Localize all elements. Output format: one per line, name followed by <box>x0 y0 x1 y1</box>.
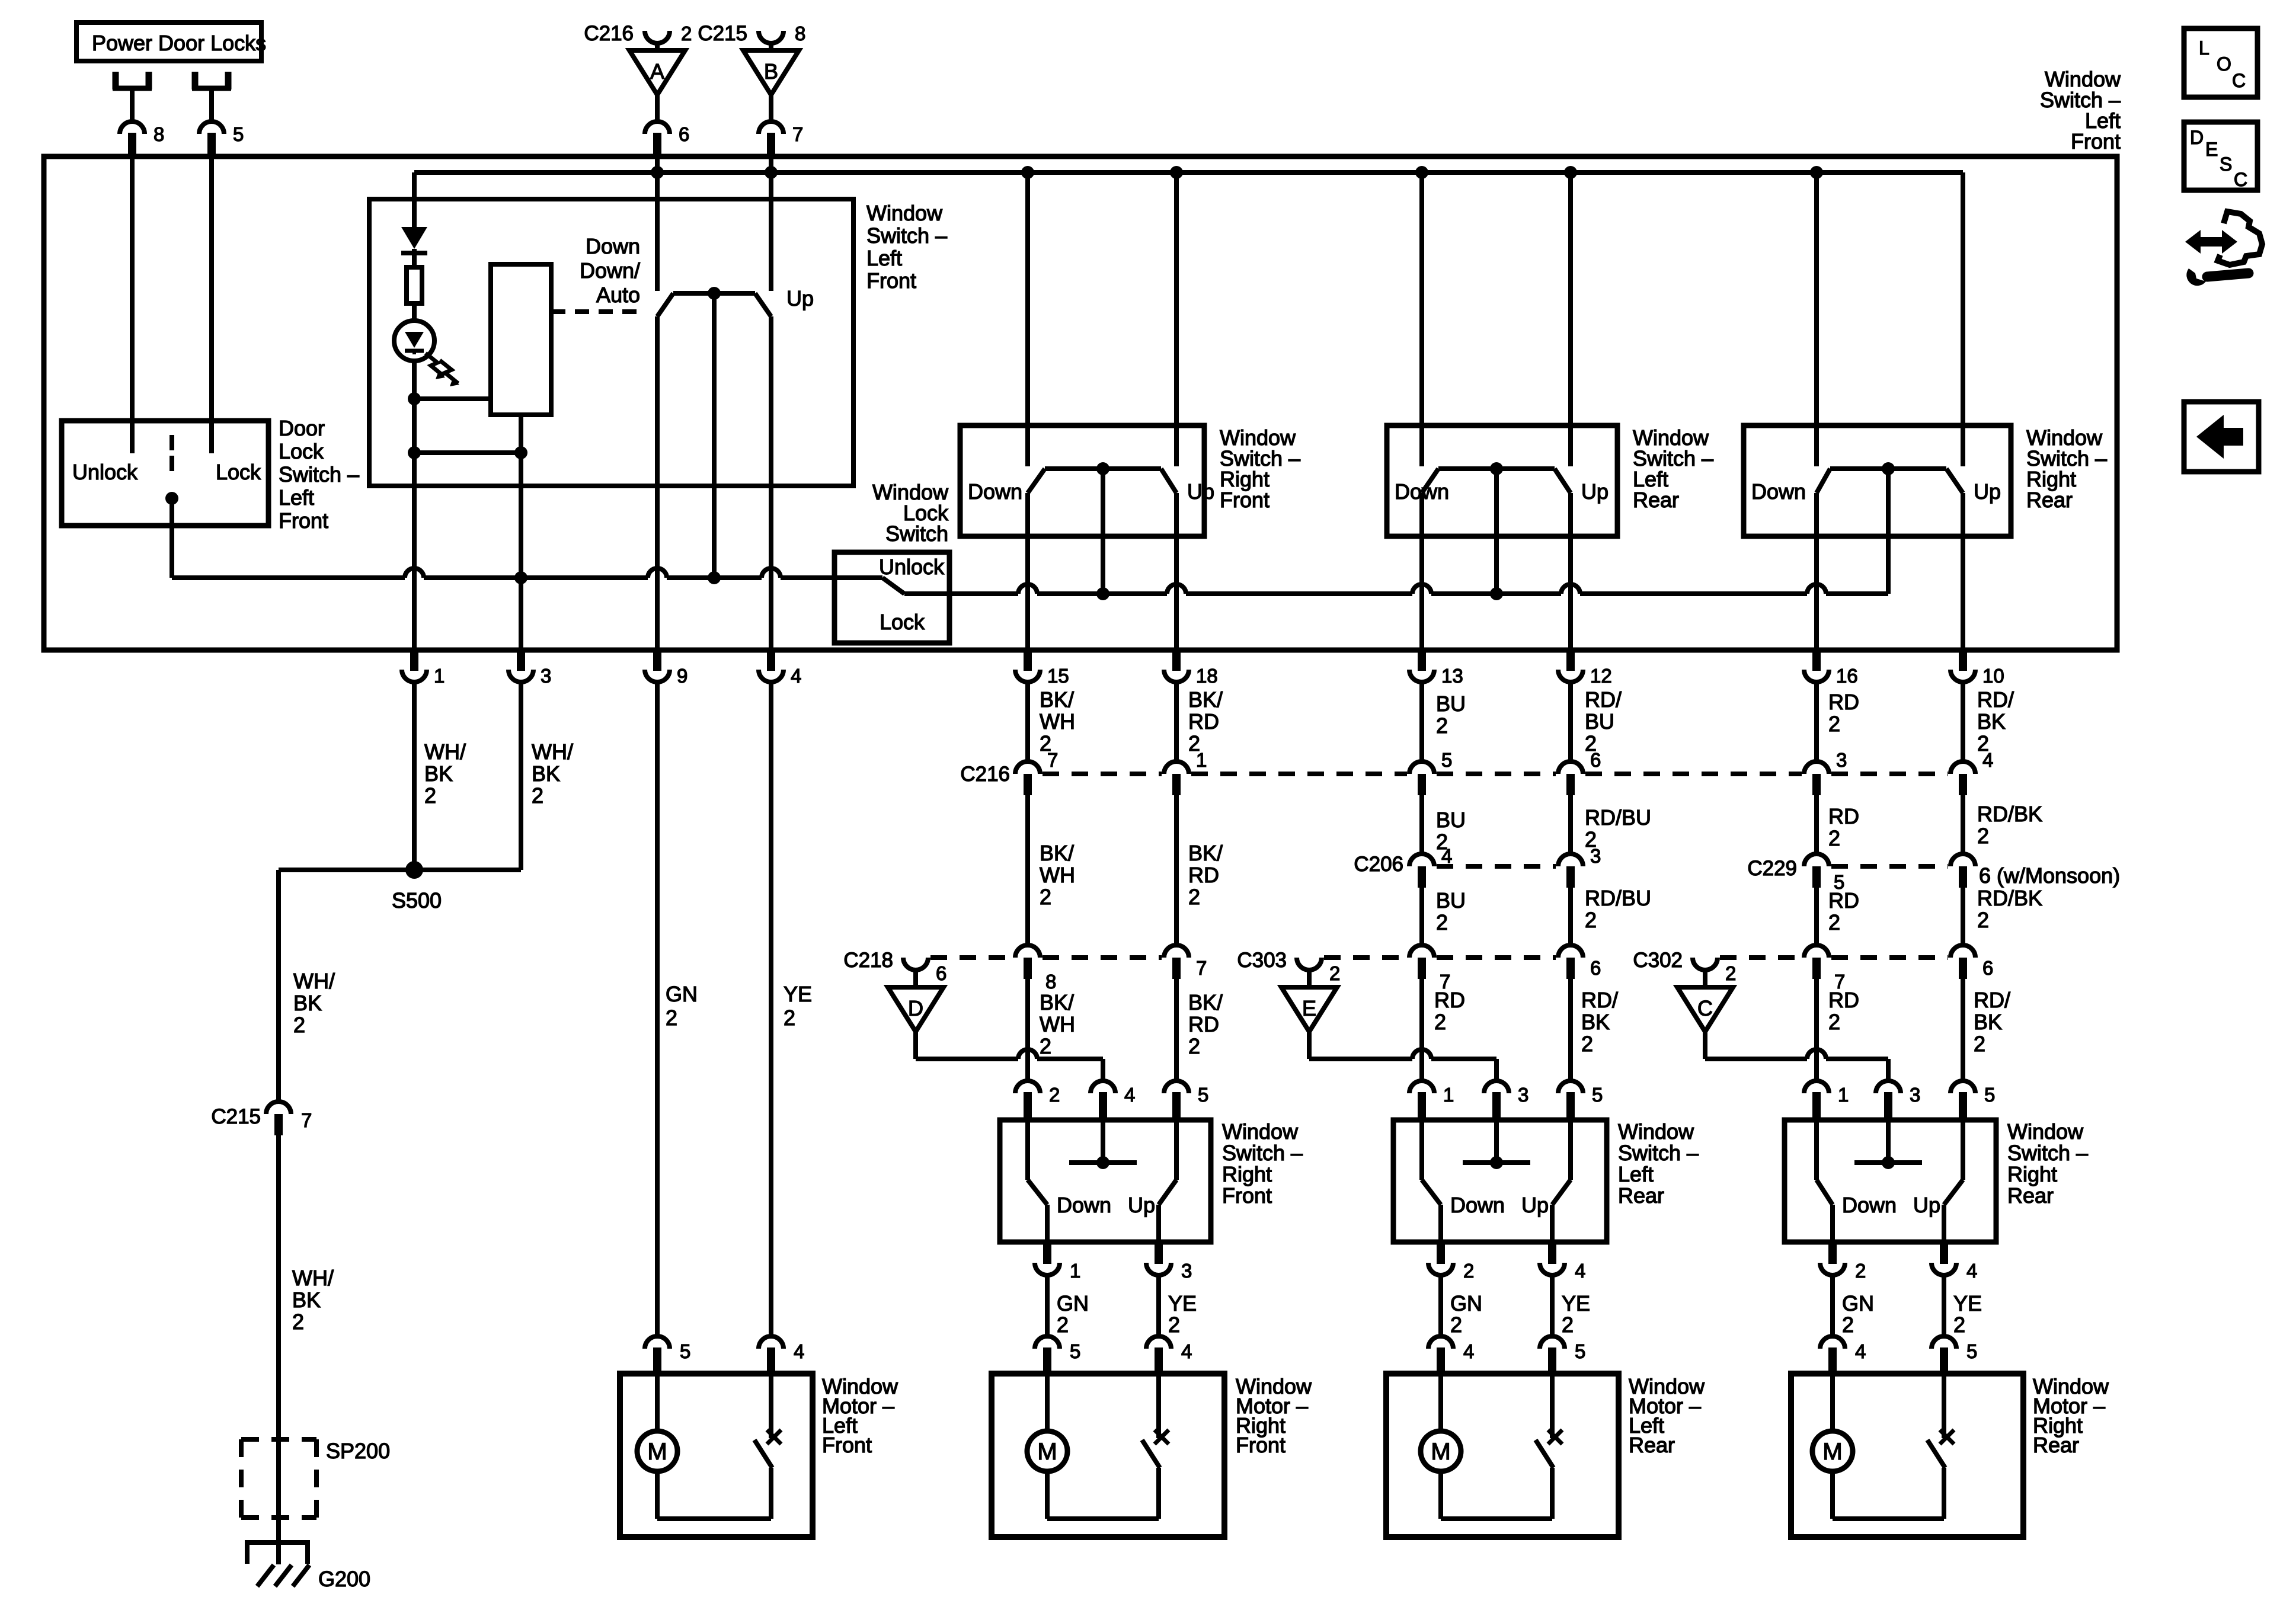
svg-text:2: 2 <box>1842 1313 1854 1337</box>
svg-text:2: 2 <box>1168 1313 1180 1337</box>
svg-text:Left: Left <box>279 485 314 510</box>
svg-text:2: 2 <box>1828 910 1840 934</box>
svg-text:2: 2 <box>1725 962 1736 984</box>
svg-text:WH: WH <box>1040 1012 1075 1036</box>
svg-text:C229: C229 <box>1747 857 1797 880</box>
svg-text:WH/: WH/ <box>293 969 335 993</box>
svg-text:RD/BU: RD/BU <box>1585 886 1651 910</box>
svg-text:WH: WH <box>1040 709 1075 734</box>
svg-text:YE: YE <box>1168 1291 1197 1315</box>
svg-text:4: 4 <box>1124 1084 1135 1106</box>
svg-text:BK: BK <box>532 761 560 786</box>
svg-text:4: 4 <box>1181 1340 1192 1362</box>
svg-text:C215: C215 <box>698 22 747 45</box>
svg-text:1: 1 <box>434 665 445 687</box>
svg-text:BK: BK <box>1974 1010 2002 1034</box>
svg-text:BK: BK <box>1977 709 2006 734</box>
svg-text:C215: C215 <box>211 1105 261 1128</box>
svg-text:6: 6 <box>679 123 689 145</box>
svg-text:Up: Up <box>1521 1193 1549 1217</box>
svg-text:C302: C302 <box>1633 949 1683 972</box>
svg-text:RD/: RD/ <box>1974 988 2010 1012</box>
svg-text:M: M <box>1822 1439 1842 1465</box>
svg-text:Up: Up <box>786 286 814 311</box>
svg-text:Switch –: Switch – <box>1222 1141 1303 1165</box>
svg-text:18: 18 <box>1196 665 1218 687</box>
svg-text:Rear: Rear <box>1629 1433 1675 1457</box>
svg-text:RD/BU: RD/BU <box>1585 805 1651 830</box>
svg-text:M: M <box>1431 1439 1450 1465</box>
svg-text:C218: C218 <box>843 949 893 972</box>
svg-text:YE: YE <box>1562 1291 1590 1315</box>
svg-text:Rear: Rear <box>1633 488 1679 512</box>
svg-text:M: M <box>1037 1439 1057 1465</box>
svg-text:7: 7 <box>301 1109 312 1131</box>
svg-text:Window: Window <box>1618 1119 1694 1144</box>
svg-text:Switch: Switch <box>885 521 948 546</box>
svg-text:2: 2 <box>1436 910 1448 934</box>
svg-text:2: 2 <box>1049 1084 1060 1106</box>
svg-text:Left: Left <box>1618 1162 1654 1186</box>
svg-text:BK/: BK/ <box>1188 841 1223 865</box>
svg-text:2: 2 <box>666 1006 677 1030</box>
svg-text:13: 13 <box>1441 665 1463 687</box>
svg-text:L: L <box>2199 37 2209 59</box>
svg-text:RD: RD <box>1188 709 1219 734</box>
svg-text:S500: S500 <box>392 888 442 913</box>
svg-text:2: 2 <box>1977 824 1989 848</box>
svg-text:GN: GN <box>1057 1291 1089 1315</box>
svg-text:5: 5 <box>1592 1084 1603 1106</box>
svg-text:5: 5 <box>1441 749 1452 771</box>
svg-text:8: 8 <box>154 123 164 145</box>
svg-text:RD/BK: RD/BK <box>1977 802 2042 826</box>
svg-text:BK/: BK/ <box>1188 990 1223 1014</box>
svg-text:Right: Right <box>1222 1162 1272 1186</box>
svg-text:6: 6 <box>936 962 946 984</box>
svg-text:RD: RD <box>1828 690 1859 714</box>
svg-text:6 (w/Monsoon): 6 (w/Monsoon) <box>1979 863 2120 888</box>
svg-text:Window: Window <box>2007 1119 2084 1144</box>
svg-text:4: 4 <box>1855 1340 1866 1362</box>
svg-text:2: 2 <box>1953 1313 1965 1337</box>
svg-text:4: 4 <box>791 665 801 687</box>
svg-text:Front: Front <box>1220 488 1269 512</box>
svg-text:2: 2 <box>1040 1034 1051 1058</box>
svg-text:5: 5 <box>680 1340 690 1362</box>
svg-text:2: 2 <box>1436 713 1448 738</box>
svg-text:6: 6 <box>1590 749 1601 771</box>
svg-text:BU: BU <box>1585 709 1614 734</box>
svg-text:E: E <box>2205 139 2218 160</box>
svg-text:Up: Up <box>1187 479 1214 504</box>
svg-text:C: C <box>1697 996 1713 1020</box>
svg-text:3: 3 <box>541 665 551 687</box>
svg-text:2: 2 <box>1855 1260 1866 1282</box>
svg-text:RD: RD <box>1828 888 1859 913</box>
svg-text:Down: Down <box>1395 479 1449 504</box>
svg-text:2: 2 <box>292 1310 304 1334</box>
svg-text:Down/: Down/ <box>580 258 640 283</box>
svg-text:BK: BK <box>424 761 453 786</box>
svg-text:BK: BK <box>1581 1010 1610 1034</box>
svg-text:4: 4 <box>1463 1340 1474 1362</box>
svg-text:RD: RD <box>1188 863 1219 887</box>
svg-text:2: 2 <box>293 1013 305 1037</box>
svg-text:BU: BU <box>1436 692 1466 716</box>
svg-text:Power Door Locks: Power Door Locks <box>92 31 266 55</box>
svg-text:15: 15 <box>1047 665 1069 687</box>
svg-text:Down: Down <box>1842 1193 1897 1217</box>
svg-text:A: A <box>650 59 664 84</box>
svg-text:10: 10 <box>1982 665 2004 687</box>
svg-text:WH/: WH/ <box>292 1266 334 1290</box>
svg-text:WH: WH <box>1040 863 1075 887</box>
svg-text:2: 2 <box>1828 826 1840 850</box>
svg-text:BK/: BK/ <box>1040 990 1074 1014</box>
svg-text:Door: Door <box>279 416 325 440</box>
svg-text:9: 9 <box>677 665 687 687</box>
svg-text:6: 6 <box>1982 957 1993 979</box>
svg-text:Front: Front <box>822 1433 872 1457</box>
svg-text:3: 3 <box>1910 1084 1920 1106</box>
svg-text:Window: Window <box>1222 1119 1299 1144</box>
svg-text:WH/: WH/ <box>532 740 573 764</box>
svg-text:12: 12 <box>1590 665 1612 687</box>
svg-text:Rear: Rear <box>2033 1433 2079 1457</box>
svg-text:Front: Front <box>279 508 328 533</box>
svg-text:Front: Front <box>2071 129 2121 153</box>
svg-text:2: 2 <box>681 23 692 44</box>
svg-text:Left: Left <box>866 246 902 270</box>
svg-text:Up: Up <box>1913 1193 1940 1217</box>
svg-text:5: 5 <box>1198 1084 1208 1106</box>
svg-text:3: 3 <box>1518 1084 1528 1106</box>
svg-text:BK: BK <box>293 991 322 1015</box>
svg-text:GN: GN <box>1842 1291 1874 1315</box>
svg-text:Lock: Lock <box>216 460 261 484</box>
svg-text:2: 2 <box>784 1006 795 1030</box>
svg-text:5: 5 <box>1984 1084 1995 1106</box>
svg-text:BK/: BK/ <box>1040 841 1074 865</box>
svg-text:2: 2 <box>1188 885 1200 909</box>
svg-text:Front: Front <box>1236 1433 1285 1457</box>
svg-text:Window: Window <box>866 201 943 225</box>
svg-text:BK/: BK/ <box>1188 687 1223 712</box>
svg-text:Switch –: Switch – <box>866 223 947 248</box>
svg-text:2: 2 <box>1828 712 1840 736</box>
svg-text:RD: RD <box>1188 1012 1219 1036</box>
svg-text:1: 1 <box>1443 1084 1454 1106</box>
svg-text:Down: Down <box>586 234 640 258</box>
svg-text:Down: Down <box>1057 1193 1111 1217</box>
svg-text:WH/: WH/ <box>424 740 466 764</box>
svg-text:B: B <box>764 59 778 84</box>
svg-text:2: 2 <box>1329 962 1340 984</box>
svg-text:Switch –: Switch – <box>1618 1141 1699 1165</box>
svg-text:3: 3 <box>1836 749 1847 771</box>
svg-text:C303: C303 <box>1237 949 1287 972</box>
svg-text:2: 2 <box>1562 1313 1574 1337</box>
svg-text:C: C <box>2232 70 2246 91</box>
svg-text:Up: Up <box>1581 479 1609 504</box>
svg-text:2: 2 <box>1434 1010 1446 1034</box>
svg-text:Front: Front <box>1222 1183 1272 1208</box>
svg-text:Unlock: Unlock <box>72 460 138 484</box>
svg-text:GN: GN <box>1450 1291 1482 1315</box>
svg-text:2: 2 <box>1436 830 1448 854</box>
svg-text:1: 1 <box>1838 1084 1849 1106</box>
svg-text:4: 4 <box>1966 1260 1977 1282</box>
svg-text:8: 8 <box>1045 971 1056 993</box>
svg-text:YE: YE <box>784 982 812 1006</box>
svg-text:C: C <box>2234 169 2247 190</box>
svg-text:2: 2 <box>1581 1032 1593 1056</box>
svg-text:Lock: Lock <box>880 610 925 634</box>
svg-text:2: 2 <box>1040 885 1051 909</box>
svg-text:RD/: RD/ <box>1581 988 1618 1012</box>
svg-text:O: O <box>2217 53 2231 75</box>
svg-text:16: 16 <box>1836 665 1858 687</box>
svg-text:2: 2 <box>1828 1010 1840 1034</box>
svg-text:SP200: SP200 <box>326 1439 390 1463</box>
svg-text:C216: C216 <box>584 22 634 45</box>
svg-text:BU: BU <box>1436 888 1466 913</box>
svg-text:C206: C206 <box>1354 853 1403 876</box>
svg-text:Unlock: Unlock <box>879 555 945 579</box>
svg-text:Up: Up <box>1128 1193 1155 1217</box>
svg-text:5: 5 <box>1966 1340 1977 1362</box>
svg-text:2: 2 <box>532 783 543 808</box>
svg-text:G200: G200 <box>318 1567 370 1591</box>
svg-text:2: 2 <box>1974 1032 1985 1056</box>
svg-text:S: S <box>2220 153 2232 175</box>
svg-text:2: 2 <box>1977 908 1989 932</box>
svg-text:1: 1 <box>1196 749 1207 771</box>
svg-text:2: 2 <box>1463 1260 1474 1282</box>
svg-text:2: 2 <box>1188 1034 1200 1058</box>
svg-text:5: 5 <box>1070 1340 1080 1362</box>
svg-text:2: 2 <box>424 783 436 808</box>
svg-text:4: 4 <box>1982 749 1993 771</box>
svg-text:RD/: RD/ <box>1585 687 1622 712</box>
svg-text:M: M <box>647 1439 667 1465</box>
svg-text:D: D <box>908 996 923 1020</box>
svg-text:Switch –: Switch – <box>279 462 359 486</box>
svg-text:2: 2 <box>1057 1313 1069 1337</box>
svg-text:3: 3 <box>1181 1260 1192 1282</box>
svg-text:Up: Up <box>1974 479 2001 504</box>
svg-text:Front: Front <box>866 268 916 293</box>
svg-text:GN: GN <box>666 982 698 1006</box>
svg-text:Rear: Rear <box>2007 1183 2054 1208</box>
svg-text:RD/BK: RD/BK <box>1977 886 2042 910</box>
svg-text:C216: C216 <box>960 763 1010 786</box>
svg-text:BK: BK <box>292 1288 321 1312</box>
svg-text:BK/: BK/ <box>1040 687 1074 712</box>
svg-text:1: 1 <box>1070 1260 1080 1282</box>
svg-text:Lock: Lock <box>279 439 324 463</box>
svg-text:Down: Down <box>968 479 1022 504</box>
svg-text:Down: Down <box>1751 479 1806 504</box>
svg-text:YE: YE <box>1953 1291 1982 1315</box>
svg-text:4: 4 <box>1575 1260 1585 1282</box>
svg-text:E: E <box>1302 996 1316 1020</box>
svg-text:Right: Right <box>2007 1162 2057 1186</box>
svg-text:5: 5 <box>233 123 244 145</box>
svg-text:RD: RD <box>1434 988 1465 1012</box>
svg-text:RD/: RD/ <box>1977 687 2014 712</box>
svg-text:D: D <box>2190 127 2204 148</box>
svg-text:RD: RD <box>1828 988 1859 1012</box>
svg-text:2: 2 <box>1450 1313 1462 1337</box>
svg-text:7: 7 <box>1047 749 1058 771</box>
svg-text:2: 2 <box>1585 827 1597 852</box>
svg-text:Auto: Auto <box>596 283 640 307</box>
svg-text:5: 5 <box>1575 1340 1585 1362</box>
svg-text:Rear: Rear <box>1618 1183 1664 1208</box>
svg-text:6: 6 <box>1590 957 1601 979</box>
svg-text:2: 2 <box>1585 908 1597 932</box>
svg-text:7: 7 <box>1196 957 1207 979</box>
svg-text:Rear: Rear <box>2026 488 2073 512</box>
svg-text:4: 4 <box>794 1340 804 1362</box>
svg-text:BU: BU <box>1436 808 1466 832</box>
svg-text:Switch –: Switch – <box>2007 1141 2088 1165</box>
svg-text:RD: RD <box>1828 804 1859 828</box>
svg-text:7: 7 <box>792 123 803 145</box>
svg-text:8: 8 <box>795 23 805 44</box>
svg-text:Down: Down <box>1450 1193 1505 1217</box>
